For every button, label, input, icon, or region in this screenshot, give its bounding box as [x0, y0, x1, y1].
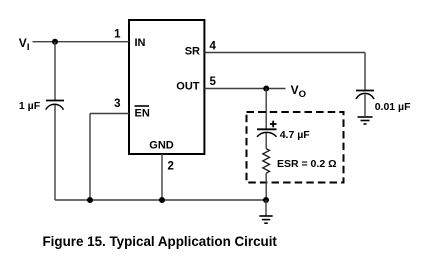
- resistor ESR zigzag: [263, 149, 270, 174]
- node VO label: [291, 83, 306, 100]
- svg-text:IN: IN: [135, 37, 146, 49]
- pin number 4: [210, 41, 217, 53]
- wire: SR pin horizontal: [204, 52, 365, 54]
- value label ESR = 0.2 Ohm: [277, 158, 337, 170]
- caption: Figure 15. Typical Application Circuit: [43, 234, 278, 249]
- pin label SR: [185, 45, 200, 57]
- node VI label: [19, 36, 30, 53]
- junction dot: rail to ground: [263, 197, 269, 203]
- value label 4.7 uF: [280, 129, 311, 141]
- wire: VI node down to C1 top: [54, 42, 56, 101]
- capacitor C1 1uF symbol: [46, 101, 64, 110]
- pin number 2: [168, 161, 174, 173]
- pin label GND: [149, 140, 174, 152]
- pin number 3: [114, 98, 120, 110]
- junction dot: pin2 to rail: [159, 197, 165, 203]
- wire: VI to pin IN: [33, 41, 130, 43]
- svg-text:OUT: OUT: [176, 81, 200, 93]
- pin label IN: [135, 37, 146, 49]
- pin number 1: [114, 28, 121, 40]
- svg-text:4.7 µF: 4.7 µF: [280, 129, 311, 141]
- svg-text:Figure 15. Typical Application: Figure 15. Typical Application Circuit: [43, 234, 278, 249]
- pin number 5: [210, 76, 217, 88]
- wire: bottom ground rail: [55, 199, 266, 201]
- svg-text:VI: VI: [19, 36, 30, 53]
- dashed box (output capacitor model): [247, 112, 344, 183]
- wire: C2 bottom to ground: [364, 95, 366, 117]
- junction dot: VO node: [263, 86, 269, 92]
- capacitor C3 4.7uF symbol: [257, 129, 277, 137]
- wire: C3 bottom to resistor: [265, 133, 267, 149]
- plus sign (C3 polarity): [270, 121, 277, 128]
- value label 0.01 uF: [375, 101, 411, 113]
- svg-text:4: 4: [210, 41, 217, 53]
- regulator IC U1 body: [129, 20, 204, 154]
- ground symbol (under 0.01uF): [358, 117, 373, 124]
- wire: OUT pin to VO: [204, 88, 285, 90]
- wire: resistor to rail: [265, 173, 267, 200]
- wire: EN pin horizontal: [90, 113, 129, 115]
- svg-text:GND: GND: [149, 140, 174, 152]
- pin label OUT: [176, 81, 200, 93]
- junction dot: EN to rail: [87, 197, 93, 203]
- svg-text:VO: VO: [291, 83, 306, 100]
- wire: C1 bottom to ground rail: [54, 105, 56, 200]
- ground symbol (main): [259, 216, 272, 223]
- svg-text:1 µF: 1 µF: [19, 100, 41, 112]
- svg-text:1: 1: [114, 28, 121, 40]
- capacitor C2 0.01uF symbol: [356, 91, 374, 100]
- svg-text:3: 3: [114, 98, 120, 110]
- svg-text:0.01 µF: 0.01 µF: [375, 101, 411, 113]
- wire: rail to ground symbol stem: [265, 200, 267, 216]
- junction dot: VI node: [52, 39, 58, 45]
- value label 1 uF: [19, 100, 41, 112]
- svg-text:5: 5: [210, 76, 217, 88]
- svg-text:SR: SR: [185, 45, 200, 57]
- svg-text:ESR = 0.2 Ω: ESR = 0.2 Ω: [277, 158, 337, 170]
- wire: EN vertical to rail: [89, 114, 91, 201]
- wire: SR vertical down to C2: [364, 53, 366, 91]
- svg-text:EN: EN: [135, 108, 150, 120]
- wire: GND pin 2 vertical: [161, 154, 163, 200]
- wire: VO node down to C3: [265, 89, 267, 130]
- pin label EN (with overbar): [135, 106, 150, 120]
- svg-text:2: 2: [168, 161, 174, 173]
